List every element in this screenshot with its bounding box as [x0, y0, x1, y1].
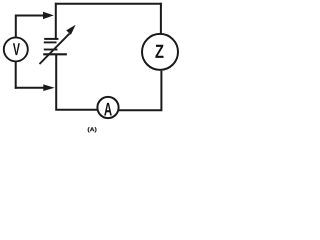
variable source B1: plate line 4 (bottom, connects to bottom lead): [43, 53, 67, 55]
variable source B1: plate line 1 (top, connects to top lead): [44, 38, 58, 40]
wire V top lead: [15, 15, 17, 38]
impedance Z circle: [142, 34, 178, 70]
voltmeter V1 label V: [13, 43, 20, 55]
voltmeter V1 circle: [4, 37, 28, 61]
wire Z top lead: [160, 3, 162, 34]
arrow top-left (current direction into source top): [43, 12, 54, 19]
wire top horizontal: [55, 3, 162, 5]
ammeter A1 circle: [97, 97, 118, 118]
variable source B1: adjustment arrow shaft: [40, 34, 70, 64]
wire battery bottom lead and bottom-left horizontal to A: [55, 54, 97, 110]
variable source B1: adjustment arrow head: [66, 25, 75, 35]
wire top-left horizontal from V lead to arrow: [15, 15, 44, 17]
impedance Z label: [155, 45, 163, 58]
wire battery top lead: [55, 3, 57, 39]
wire bottom-left horizontal from V lead to arrow: [15, 87, 44, 89]
wire bottom-right horizontal from A and Z bottom lead: [119, 71, 163, 111]
caption (A): [88, 127, 97, 132]
arrow bottom-left (current direction into source bottom): [43, 84, 54, 91]
wire V bottom lead: [15, 61, 17, 89]
variable source B1: plate line 3: [44, 49, 58, 51]
ammeter A1 label A: [104, 103, 112, 116]
variable source B1: plate line 2: [44, 41, 57, 43]
